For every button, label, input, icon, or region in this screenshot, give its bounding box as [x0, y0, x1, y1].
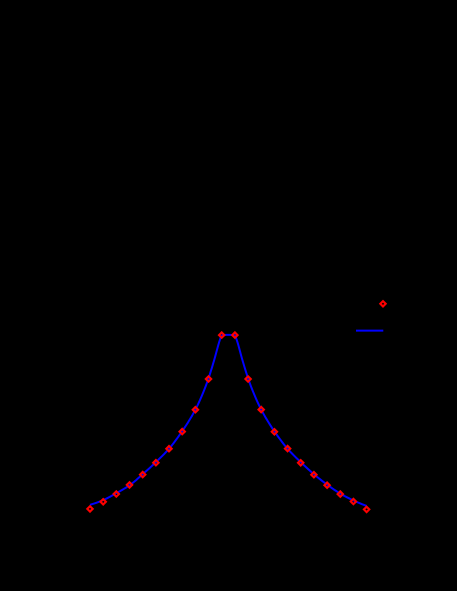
data point marker 20	[338, 491, 343, 496]
data point marker 1	[87, 506, 92, 511]
data point marker 22	[364, 507, 369, 512]
data point marker 10	[206, 376, 211, 381]
data point marker 2	[101, 499, 106, 504]
data point marker 5	[140, 472, 145, 477]
data point marker 16	[285, 446, 290, 451]
data point marker 7	[166, 446, 171, 451]
data point marker 14	[259, 407, 264, 412]
legend data marker (red diamond)	[380, 301, 385, 306]
data point marker 9	[193, 407, 198, 412]
data point marker 11	[219, 332, 224, 337]
data point marker 4	[127, 482, 132, 487]
data point marker 12	[232, 332, 237, 337]
data point marker 13	[245, 376, 250, 381]
data point marker 3	[114, 491, 119, 496]
data point marker 15	[272, 429, 277, 434]
data point marker 21	[351, 499, 356, 504]
data point marker 17	[298, 460, 303, 465]
legend fit line (blue segment)	[356, 330, 383, 332]
fit curve (blue line)	[90, 335, 367, 506]
data point marker 8	[180, 429, 185, 434]
data point marker 18	[311, 472, 316, 477]
data point marker 19	[324, 483, 329, 488]
data point marker 6	[153, 460, 158, 465]
